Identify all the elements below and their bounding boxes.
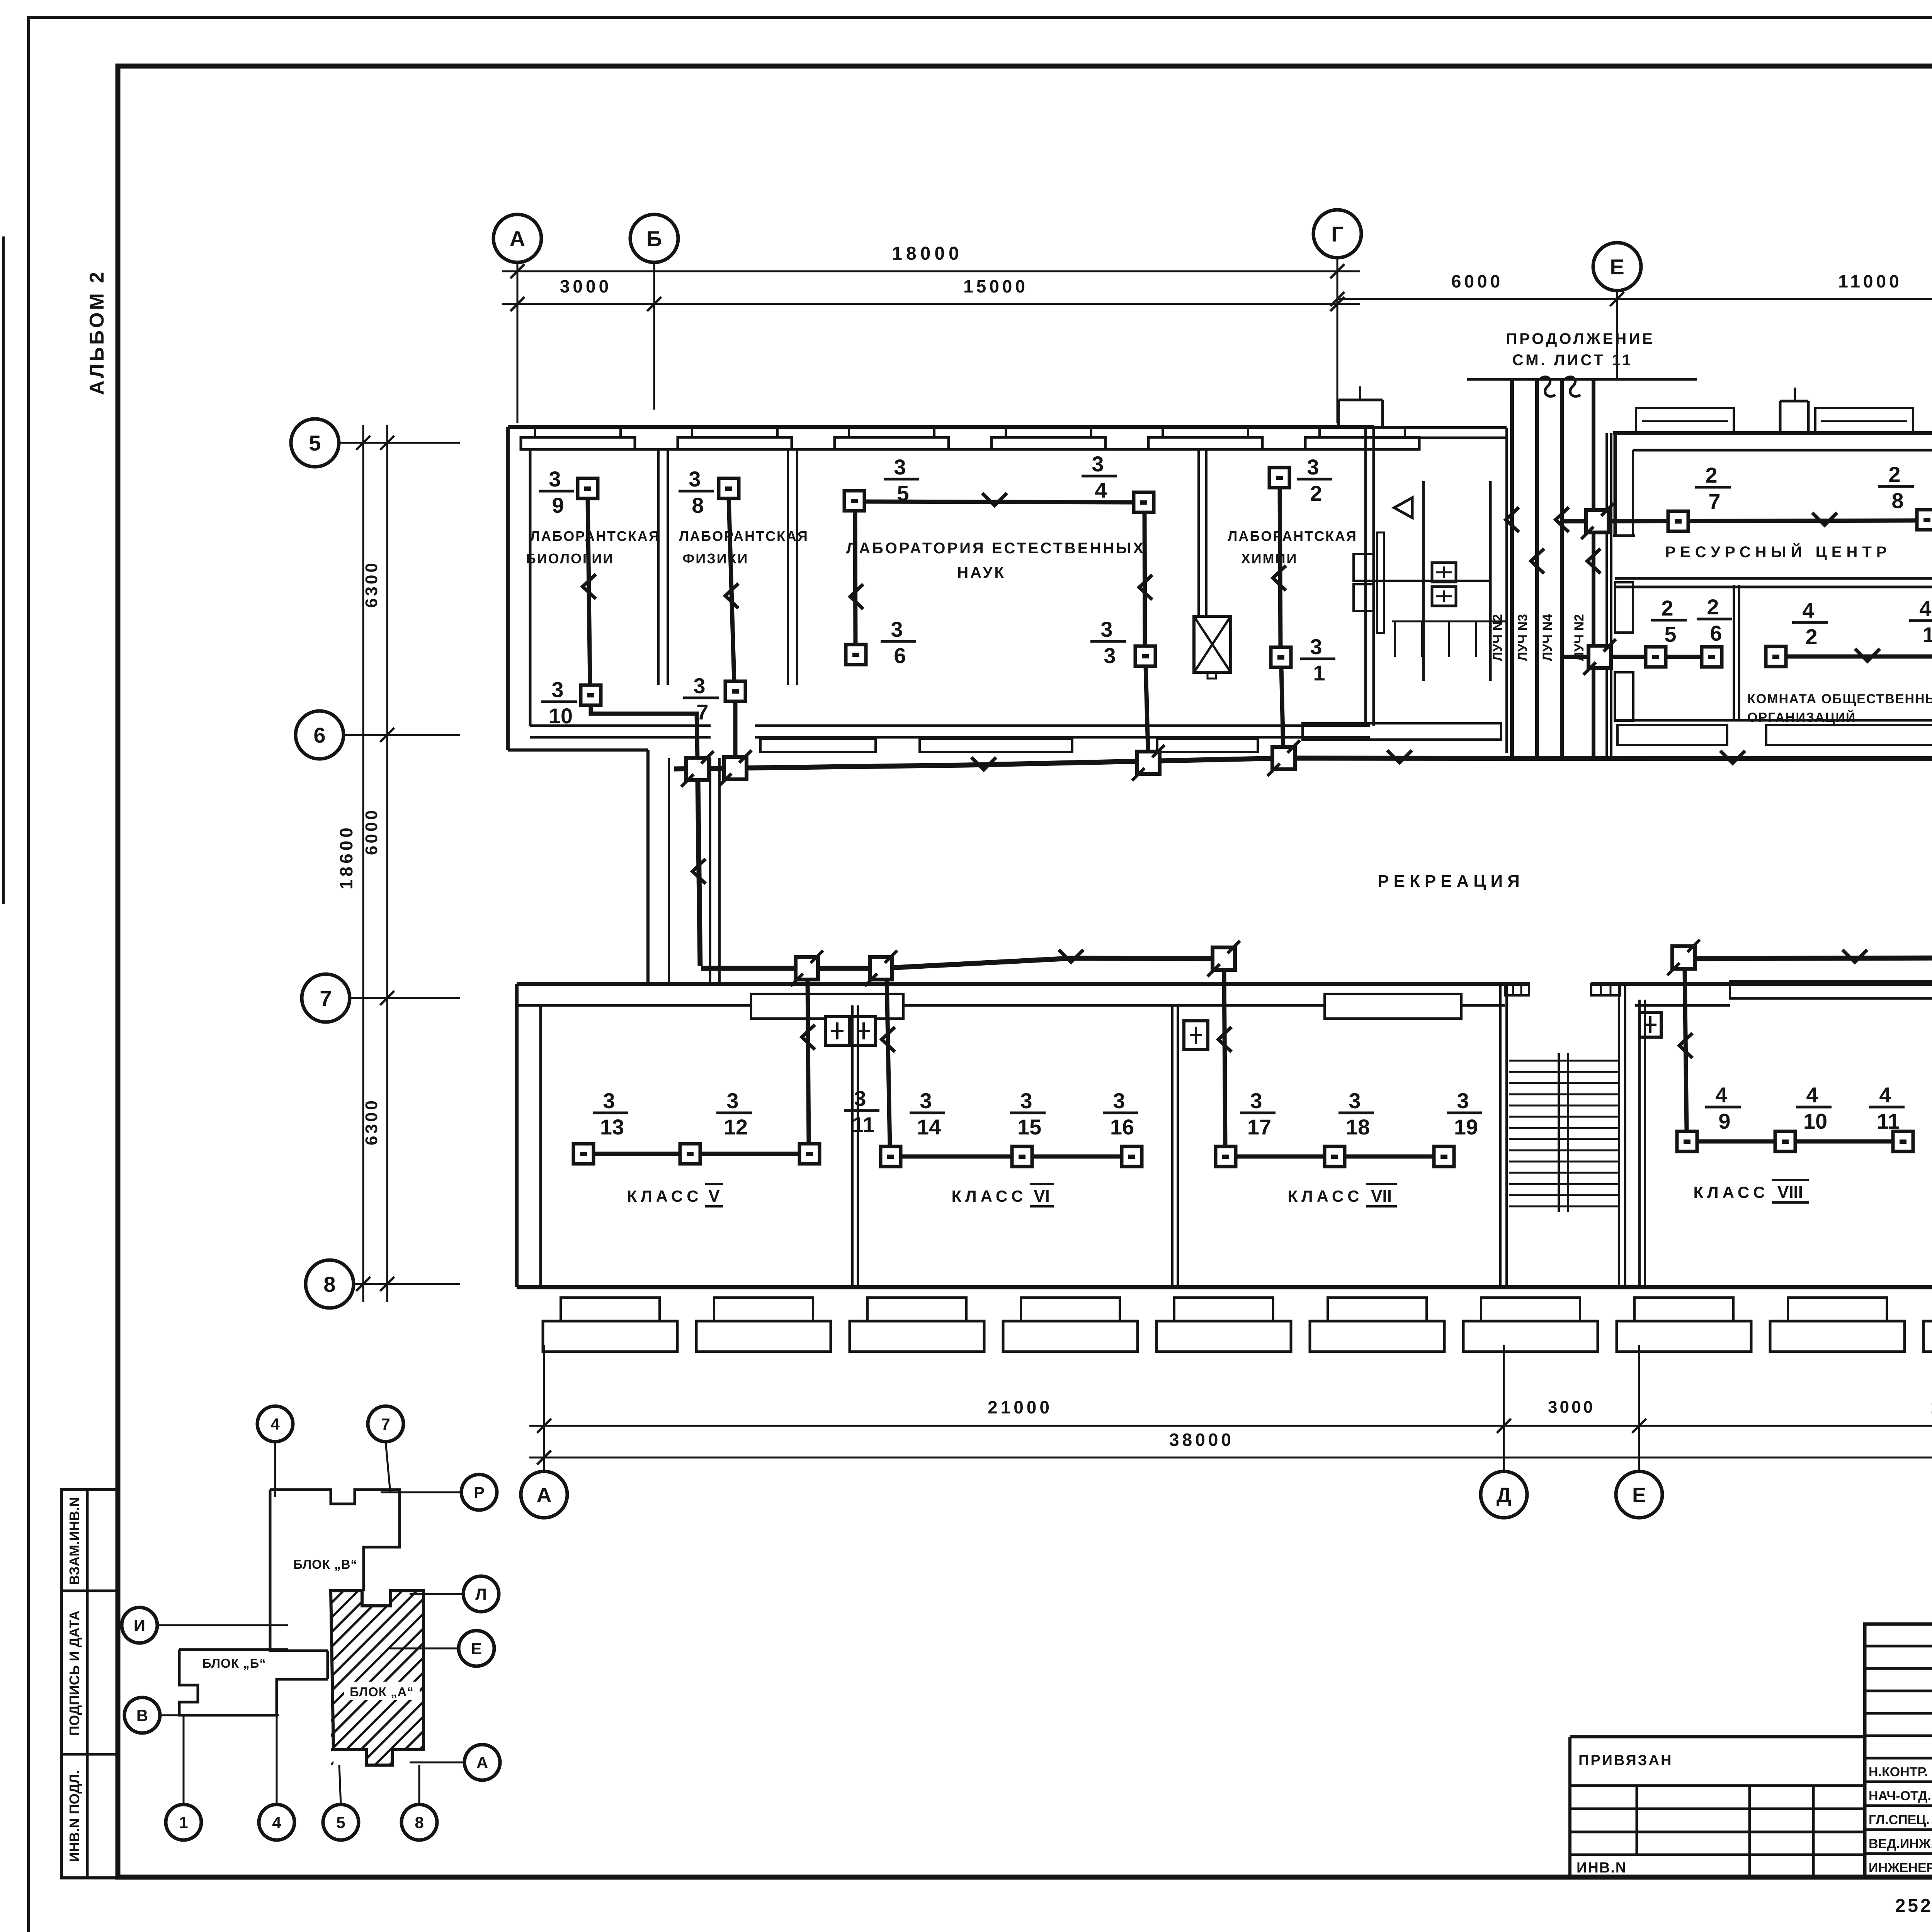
svg-text:9: 9 <box>552 493 564 517</box>
svg-text:6: 6 <box>894 643 906 668</box>
svg-text:V: V <box>708 1187 720 1206</box>
svg-text:БЛОК „А“: БЛОК „А“ <box>350 1685 414 1699</box>
svg-text:СМ. ЛИСТ 11: СМ. ЛИСТ 11 <box>1512 352 1633 369</box>
junction box B3 <box>1207 941 1240 976</box>
svg-text:ОРГАНИЗАЦИЙ: ОРГАНИЗАЦИЙ <box>1747 710 1856 725</box>
svg-text:15: 15 <box>1017 1115 1041 1139</box>
grid axis circle Д (bottom) <box>1481 1471 1527 1518</box>
svg-text:Е: Е <box>471 1639 482 1658</box>
svg-text:2: 2 <box>1310 481 1322 505</box>
junction box A2 <box>719 750 752 786</box>
detector 2/7 <box>1668 463 1731 531</box>
riser wire ЛУЧ N2 <box>1490 379 1519 757</box>
svg-text:3: 3 <box>1457 1088 1469 1113</box>
wall between class V and VI <box>852 1005 858 1287</box>
svg-text:14: 14 <box>917 1115 941 1139</box>
class VIII label <box>1693 1180 1809 1202</box>
key plan label blok A <box>344 1682 420 1700</box>
room label laboratoriya estestvennyh nauk <box>846 540 1145 581</box>
axis leader lines (top) <box>517 258 1932 432</box>
feed wire class V <box>802 980 815 1144</box>
detector 3/9 <box>539 467 598 517</box>
svg-text:3: 3 <box>726 1088 738 1113</box>
svg-text:6300: 6300 <box>362 561 381 608</box>
right block benches <box>1617 717 1932 745</box>
svg-text:3: 3 <box>1100 617 1112 641</box>
footer codes <box>1895 1896 1932 1921</box>
corridor-side cabinets lower wing <box>751 981 1932 1019</box>
key plan circle 4 bottom <box>259 1679 294 1840</box>
svg-text:3: 3 <box>1310 634 1322 659</box>
svg-text:5: 5 <box>309 431 321 455</box>
class V label <box>627 1184 723 1206</box>
svg-text:БЛОК „В“: БЛОК „В“ <box>293 1557 357 1571</box>
key plan block B outline <box>179 1650 328 1715</box>
wall between himii and sanitary block <box>1366 427 1374 726</box>
stairwell right wall <box>1619 986 1645 1287</box>
upper wing left wall <box>508 427 530 750</box>
right block windows <box>1636 408 1932 433</box>
sanitary block partitions <box>1374 481 1490 681</box>
wall between fiziki and laboratoriya <box>788 449 797 685</box>
svg-text:19: 19 <box>1454 1115 1478 1139</box>
right block bottom wall <box>1615 719 1932 722</box>
grid axis circle 7 (left) <box>302 974 350 1022</box>
wire 3/4 to 3/3 <box>1139 512 1152 646</box>
resource centre bottom wall <box>1615 578 1932 587</box>
right block roof vent <box>1780 388 1808 433</box>
svg-text:5: 5 <box>1664 622 1676 646</box>
dimension line 18000 <box>502 243 1360 278</box>
dimension line 21000 / 3000 / 14000 <box>529 1397 1932 1433</box>
feed wire class VII <box>1218 970 1231 1146</box>
shaft wall right <box>1607 433 1611 757</box>
svg-text:ЛАБОРАТОРИЯ ЕСТЕСТВЕННЫХ: ЛАБОРАТОРИЯ ЕСТЕСТВЕННЫХ <box>846 540 1145 557</box>
right block top wall <box>1613 433 1932 450</box>
svg-text:11000: 11000 <box>1838 271 1902 291</box>
column stubs on left wall <box>1615 582 1633 721</box>
detector 4/1 <box>1909 596 1932 667</box>
wire 3/8 to 3/7 <box>725 498 738 681</box>
svg-text:4: 4 <box>1879 1083 1891 1107</box>
grid axis circle А (bottom) <box>521 1471 567 1518</box>
wall between laboratoriya and himii <box>1199 449 1206 616</box>
left connecting corridor walls <box>648 750 719 984</box>
svg-text:18600: 18600 <box>336 825 356 889</box>
detector 2/5 <box>1646 596 1687 667</box>
key plan circle A right <box>410 1745 500 1780</box>
grid axis circle 8 (left) <box>306 1260 354 1308</box>
right block left wall <box>1613 433 1635 536</box>
riser wire ЛУЧ N2 <box>1572 379 1600 757</box>
svg-text:15000: 15000 <box>963 276 1028 296</box>
svg-text:ЛУЧ N4: ЛУЧ N4 <box>1540 614 1555 661</box>
svg-text:3: 3 <box>1307 455 1319 479</box>
svg-text:5: 5 <box>336 1813 345 1832</box>
stamp label ИНВ.N ПОДЛ. <box>66 1770 82 1862</box>
svg-text:6300: 6300 <box>362 1098 381 1145</box>
grid axis circle Е (top) <box>1593 243 1641 291</box>
wire 3/10 to junction <box>591 705 697 758</box>
svg-text:3000: 3000 <box>560 276 612 296</box>
sanitary stalls <box>1392 621 1507 657</box>
svg-text:10: 10 <box>549 704 573 728</box>
inv.n text <box>1577 1860 1627 1876</box>
svg-text:8: 8 <box>323 1272 335 1296</box>
dimension line 3000 / 15000 <box>502 276 1360 311</box>
svg-text:25225-02: 25225-02 <box>1895 1896 1932 1916</box>
svg-text:3: 3 <box>689 467 701 491</box>
svg-text:ПРИВЯЗАН: ПРИВЯЗАН <box>1578 1752 1673 1769</box>
svg-text:11: 11 <box>852 1112 874 1137</box>
svg-text:38000: 38000 <box>1169 1430 1234 1450</box>
wire 4/2 4/1 chain <box>1786 649 1932 661</box>
junction box A3 <box>1132 745 1165 781</box>
svg-text:ВЗАМ.ИНВ.N: ВЗАМ.ИНВ.N <box>66 1497 82 1585</box>
svg-text:ПОДПИСЬ И ДАТА: ПОДПИСЬ И ДАТА <box>66 1611 82 1736</box>
svg-text:ПРОДОЛЖЕНИЕ: ПРОДОЛЖЕНИЕ <box>1506 330 1655 347</box>
svg-text:8: 8 <box>1891 488 1903 513</box>
room label laborantskaya fiziki <box>679 528 809 566</box>
svg-text:ИНВ.N ПОДЛ.: ИНВ.N ПОДЛ. <box>66 1770 82 1862</box>
svg-text:В: В <box>136 1706 148 1725</box>
junction box B1 <box>791 951 823 986</box>
continuation cut line (sm. list 11) <box>1467 377 1697 396</box>
roof vent bump upper wing <box>1338 386 1383 427</box>
svg-text:ЛУЧ N2: ЛУЧ N2 <box>1490 614 1505 661</box>
manual call points lower wing <box>825 1012 1932 1049</box>
wire 2/5 2/6 chain <box>1611 655 1712 659</box>
dimension line 6000 / 11000 / 3000 <box>1330 271 1932 306</box>
scan edge artifact <box>2 236 5 904</box>
svg-text:3: 3 <box>1349 1088 1361 1113</box>
svg-text:РЕСУРСНЫЙ ЦЕНТР: РЕСУРСНЫЙ ЦЕНТР <box>1665 543 1891 561</box>
grid axis circle 6 (left) <box>296 711 344 759</box>
wall between obsh org sections <box>1734 585 1739 720</box>
svg-text:6000: 6000 <box>1451 271 1503 291</box>
detector 3/19 <box>1434 1088 1482 1167</box>
wall between laborantskaya biologii and fiziki <box>658 449 668 685</box>
riser wire ЛУЧ N3 <box>1515 379 1544 757</box>
key plan circle 1 bottom <box>166 1716 201 1840</box>
axis leader lines (bottom) <box>544 1345 1932 1471</box>
svg-text:КЛАСС: КЛАСС <box>1693 1183 1769 1201</box>
class VI label <box>951 1184 1054 1206</box>
junction box A4 <box>1267 740 1300 776</box>
feed wire class VIII <box>1679 970 1692 1131</box>
upper corridor wire <box>674 750 1932 770</box>
wire 3/5 to 3/4 <box>864 493 1134 505</box>
lower wing top wall <box>517 984 1932 1005</box>
svg-text:8: 8 <box>692 493 704 517</box>
svg-text:1: 1 <box>1922 622 1932 647</box>
svg-text:2: 2 <box>1661 596 1673 620</box>
lower corridor wire <box>701 950 1932 968</box>
svg-text:11: 11 <box>1877 1109 1900 1133</box>
detector 3/17 <box>1216 1088 1276 1167</box>
svg-text:4: 4 <box>1806 1083 1818 1107</box>
svg-text:7: 7 <box>1708 489 1720 514</box>
svg-text:2: 2 <box>1805 624 1817 649</box>
svg-text:БЛОК „Б“: БЛОК „Б“ <box>202 1656 266 1670</box>
svg-text:3: 3 <box>693 673 705 698</box>
detector 3/1 <box>1271 634 1335 685</box>
door triangle sanitary <box>1394 498 1412 518</box>
svg-text:НАУК: НАУК <box>957 564 1006 581</box>
detector 2/8 <box>1878 462 1932 530</box>
wire class VIII chain <box>1697 1139 1893 1144</box>
svg-text:4: 4 <box>1802 598 1814 622</box>
upper wing top inner wall <box>521 448 1370 451</box>
svg-text:14000: 14000 <box>1930 1397 1932 1417</box>
svg-text:3: 3 <box>1020 1088 1032 1113</box>
room label laborantskaya himii <box>1228 528 1357 566</box>
wall between class VI and VII <box>1172 1005 1178 1287</box>
svg-text:3: 3 <box>894 455 906 479</box>
recreation label <box>1378 872 1524 891</box>
title block signature rows <box>1869 1765 1932 1875</box>
svg-text:НАЧ-ОТД.: НАЧ-ОТД. <box>1869 1789 1931 1803</box>
vertical dimension line 18600 <box>336 425 370 1302</box>
svg-text:3: 3 <box>549 467 561 491</box>
svg-text:БИОЛОГИИ: БИОЛОГИИ <box>526 551 614 566</box>
wire class V chain <box>594 1152 799 1156</box>
stairwell left wall <box>1500 986 1507 1287</box>
svg-text:3: 3 <box>1250 1088 1262 1113</box>
detector 3/11 <box>799 1086 879 1164</box>
key plan block A hatched <box>155 1591 843 1765</box>
lower wing left wall <box>517 984 541 1287</box>
svg-text:ЛАБОРАНТСКАЯ: ЛАБОРАНТСКАЯ <box>679 528 809 544</box>
svg-text:4: 4 <box>270 1415 280 1433</box>
detector 3/13 <box>573 1088 628 1164</box>
svg-text:6000: 6000 <box>362 808 381 855</box>
svg-text:3000: 3000 <box>1548 1398 1595 1417</box>
svg-text:VI: VI <box>1034 1187 1050 1206</box>
wire 3/5 to 3/6 <box>850 511 863 645</box>
svg-text:Г: Г <box>1331 222 1344 246</box>
privyazan text <box>1578 1752 1673 1769</box>
svg-text:13: 13 <box>600 1115 624 1139</box>
detector 3/8 <box>679 467 739 517</box>
grid axis circle Е (bottom) <box>1616 1471 1662 1518</box>
continuation note <box>1506 330 1655 369</box>
lower wing windows <box>543 1298 1932 1352</box>
svg-text:1: 1 <box>1313 661 1325 685</box>
svg-text:6: 6 <box>1710 621 1722 645</box>
detector 3/5 <box>844 455 919 511</box>
svg-text:ЛУЧ N2: ЛУЧ N2 <box>1572 614 1587 661</box>
left riser wire <box>692 781 706 966</box>
svg-text:4: 4 <box>272 1813 281 1832</box>
svg-text:6: 6 <box>313 723 325 747</box>
svg-text:3: 3 <box>551 677 563 702</box>
key plan block V outline <box>270 1490 400 1679</box>
detector 4/2 <box>1766 598 1828 667</box>
key plan label blok V <box>291 1554 360 1573</box>
detector 3/10 <box>541 677 601 728</box>
room label laborantskaya biologii <box>526 528 660 566</box>
room label resursny centr <box>1665 543 1891 561</box>
svg-text:12: 12 <box>724 1115 748 1139</box>
detector 2/6 <box>1697 595 1732 667</box>
key plan circle 5 bottom <box>323 1765 359 1840</box>
svg-text:ВЕД.ИНЖ.: ВЕД.ИНЖ. <box>1869 1837 1932 1851</box>
svg-text:2: 2 <box>1707 595 1719 619</box>
wire 3/2 to 3/1 <box>1273 488 1286 647</box>
svg-text:3: 3 <box>1092 452 1104 476</box>
stamp label ВЗАМ.ИНВ.N <box>66 1497 82 1585</box>
class VII label <box>1287 1184 1397 1206</box>
wire resource centre chain <box>1609 513 1917 525</box>
key plan circle L <box>410 1576 499 1612</box>
svg-text:ХИМИИ: ХИМИИ <box>1241 551 1298 566</box>
svg-text:А: А <box>537 1483 552 1507</box>
upper wing bottom wall <box>508 726 1370 750</box>
vertical dimension line 6300 / 6000 / 6300 <box>362 425 394 1302</box>
stamp label ПОДПИСЬ И ДАТА <box>66 1611 82 1736</box>
stair treads <box>1505 984 1620 1212</box>
svg-text:9: 9 <box>1718 1109 1730 1133</box>
svg-text:18: 18 <box>1346 1115 1370 1139</box>
svg-text:ГЛ.СПЕЦ.: ГЛ.СПЕЦ. <box>1869 1813 1930 1827</box>
svg-text:3: 3 <box>1113 1088 1125 1113</box>
svg-text:2: 2 <box>1888 462 1900 486</box>
upper wing top wall <box>508 425 1374 429</box>
wire 3/3 to junction <box>1146 666 1148 750</box>
key plan circle V left <box>124 1697 279 1733</box>
room label komnata obshestvennyh organizacij <box>1747 692 1932 725</box>
junction box B2 <box>865 951 897 986</box>
svg-text:8: 8 <box>415 1813 423 1832</box>
fume hood in himii <box>1194 616 1231 679</box>
svg-text:4: 4 <box>1095 478 1107 502</box>
wire 3/1 to junction <box>1281 667 1283 750</box>
axis leader lines (left) <box>339 443 460 1284</box>
svg-text:3: 3 <box>920 1088 932 1113</box>
svg-text:2: 2 <box>1705 463 1717 487</box>
svg-text:ИНЖЕНЕР: ИНЖЕНЕР <box>1869 1861 1932 1875</box>
wire class VI chain <box>901 1155 1122 1159</box>
svg-text:3: 3 <box>1104 643 1116 668</box>
svg-text:ЛАБОРАНТСКАЯ: ЛАБОРАНТСКАЯ <box>530 528 660 544</box>
detector 4/10 <box>1775 1083 1832 1151</box>
junction box luch2 resource centre <box>1562 503 1614 539</box>
svg-text:4: 4 <box>1715 1083 1727 1107</box>
detector 3/18 <box>1325 1088 1374 1167</box>
detector 3/4 <box>1082 452 1154 512</box>
svg-text:Б: Б <box>646 226 662 251</box>
wire class VII chain <box>1236 1155 1434 1159</box>
detector 3/14 <box>881 1088 945 1167</box>
title block left table privyazan <box>1570 1737 1865 1877</box>
detector 3/7 <box>683 673 745 724</box>
grid axis circle А (top) <box>493 214 541 262</box>
svg-text:18000: 18000 <box>892 243 963 264</box>
upper wing windows <box>521 427 1419 449</box>
svg-text:4: 4 <box>1919 596 1931 621</box>
junction box B5 <box>1667 940 1700 975</box>
svg-text:ФИЗИКИ: ФИЗИКИ <box>683 551 749 566</box>
feed wire class VI <box>882 980 895 1146</box>
dimension line 38000 <box>529 1430 1932 1464</box>
grid axis circle Б (top) <box>630 214 678 262</box>
svg-text:7: 7 <box>696 700 708 724</box>
grid axis circle 5 (left) <box>291 419 339 467</box>
wire 3/7 to junction <box>733 701 738 757</box>
shaft wall left <box>1507 428 1511 753</box>
svg-text:VII: VII <box>1371 1187 1392 1206</box>
svg-text:3: 3 <box>603 1088 615 1113</box>
riser wire ЛУЧ N4 <box>1540 379 1569 757</box>
detector 3/12 <box>680 1088 752 1164</box>
detector 3/2 <box>1269 455 1332 505</box>
svg-text:АЛЬБОМ 2: АЛЬБОМ 2 <box>86 270 108 395</box>
key plan circle 8 bottom <box>401 1765 437 1840</box>
svg-text:10: 10 <box>1803 1109 1827 1133</box>
svg-text:А: А <box>510 226 525 251</box>
svg-text:КЛАСС: КЛАСС <box>1287 1187 1363 1205</box>
svg-text:7: 7 <box>381 1415 390 1433</box>
centre section top wall <box>1374 428 1507 438</box>
svg-text:Е: Е <box>1632 1483 1646 1507</box>
junction box A1 <box>681 751 714 787</box>
svg-text:КЛАСС: КЛАСС <box>627 1187 702 1205</box>
album label <box>86 270 108 395</box>
lower wing bottom wall <box>517 1285 1932 1289</box>
svg-text:16: 16 <box>1110 1115 1134 1139</box>
svg-text:ИНВ.N: ИНВ.N <box>1577 1860 1627 1876</box>
benches upper wing <box>760 723 1501 752</box>
svg-text:Д: Д <box>1497 1483 1511 1507</box>
svg-text:7: 7 <box>320 986 332 1010</box>
key plan circle 7 top <box>368 1406 403 1492</box>
svg-text:VIII: VIII <box>1777 1183 1803 1202</box>
svg-text:21000: 21000 <box>988 1397 1053 1417</box>
svg-text:И: И <box>134 1616 145 1634</box>
detector 4/11 <box>1869 1083 1913 1151</box>
junction box luch2 lower <box>1562 639 1616 675</box>
svg-text:3: 3 <box>891 617 903 641</box>
svg-text:ЛАБОРАНТСКАЯ: ЛАБОРАНТСКАЯ <box>1228 528 1357 544</box>
detector 3/16 <box>1103 1088 1142 1167</box>
key plan circle 4 top <box>257 1406 293 1497</box>
wire 3/9 to 3/10 <box>583 498 596 685</box>
svg-text:Л: Л <box>475 1585 486 1603</box>
svg-text:Р: Р <box>474 1483 485 1502</box>
svg-text:КЛАСС: КЛАСС <box>951 1187 1027 1205</box>
title block central table <box>1865 1624 1932 1877</box>
grid axis circle Г (top) <box>1313 210 1361 258</box>
svg-text:КОМНАТА ОБЩЕСТВЕННЫХ: КОМНАТА ОБЩЕСТВЕННЫХ <box>1747 692 1932 706</box>
detector 3/6 <box>846 617 916 668</box>
detector 3/3 <box>1090 617 1155 668</box>
key plan label blok B <box>202 1656 266 1670</box>
svg-text:3: 3 <box>854 1086 866 1111</box>
svg-text:РЕКРЕАЦИЯ: РЕКРЕАЦИЯ <box>1378 872 1524 891</box>
svg-text:Н.КОНТР.: Н.КОНТР. <box>1869 1765 1928 1779</box>
svg-text:ЛУЧ N3: ЛУЧ N3 <box>1515 614 1530 661</box>
svg-text:1: 1 <box>179 1813 188 1832</box>
wash basins <box>1354 554 1456 611</box>
svg-text:Е: Е <box>1610 255 1624 279</box>
key plan circle R <box>381 1475 497 1510</box>
detector 4/9 <box>1677 1083 1741 1151</box>
left stamp boxes <box>61 1490 118 1878</box>
key plan circle E <box>390 1631 494 1666</box>
svg-text:17: 17 <box>1247 1115 1271 1139</box>
svg-text:А: А <box>476 1753 488 1772</box>
